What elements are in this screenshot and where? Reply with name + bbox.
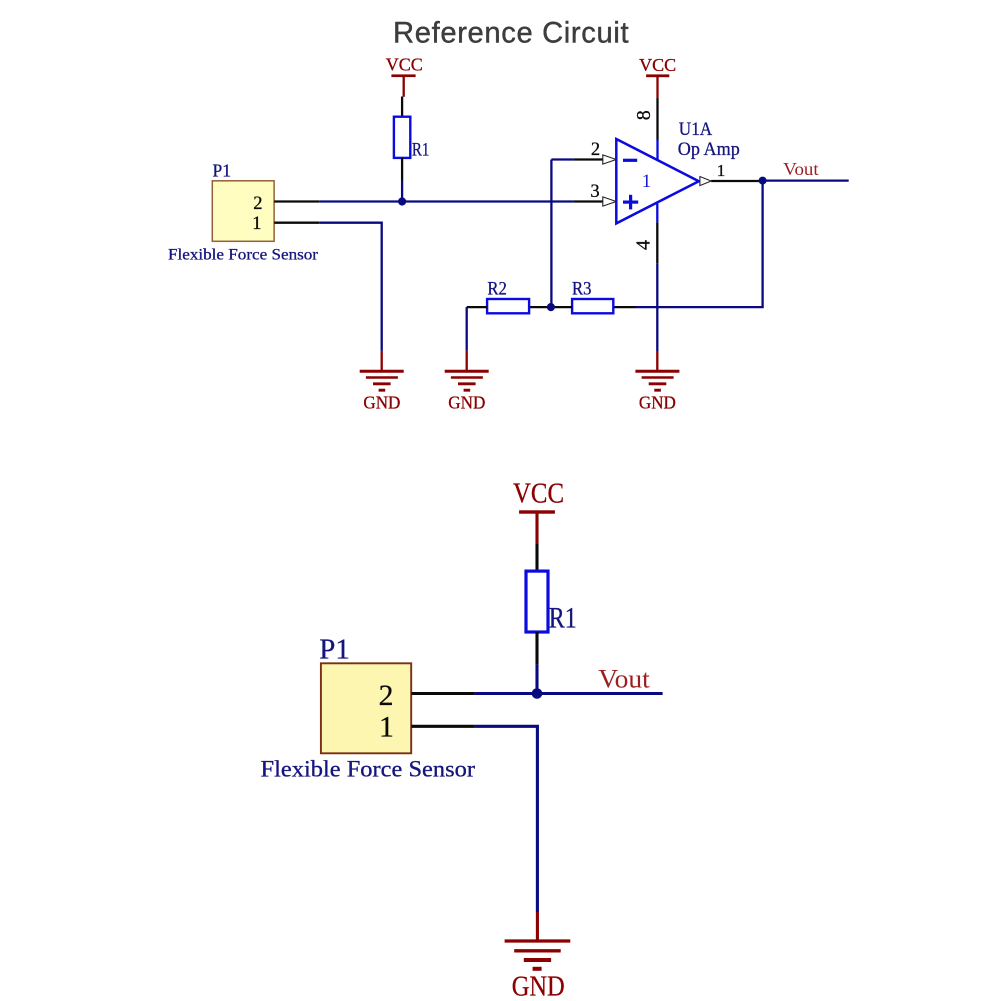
svg-text:Flexible Force Sensor: Flexible Force Sensor [168,246,319,263]
op-amp U1A [616,119,740,223]
resistor R1 [394,117,430,161]
wire (feedback from output) [636,181,763,308]
svg-text:GND: GND [448,392,485,412]
pin 1 stub (bottom) [411,725,474,728]
svg-text:1: 1 [717,161,726,180]
wire [551,158,573,160]
connector P1 [168,161,319,264]
svg-text:Vout: Vout [598,665,650,694]
resistor R1 (bottom) [526,571,577,634]
resistor R2 [467,278,529,313]
connector P1 (bottom) [261,634,476,782]
svg-text:8: 8 [633,110,655,120]
resistor R3 [529,278,636,313]
ground GND (op-amp) [635,351,679,412]
svg-text:1: 1 [379,712,394,744]
wire [319,223,381,351]
power VCC (R1 branch) [386,55,423,97]
pin 2 stub [274,200,319,202]
svg-text:VCC: VCC [513,479,564,510]
svg-text:VCC: VCC [639,55,676,75]
wire [763,179,849,181]
svg-text:P1: P1 [213,161,231,181]
pin 1 stub [274,222,319,224]
svg-text:R3: R3 [572,278,592,299]
wire [475,726,538,912]
svg-text:Reference Circuit: Reference Circuit [393,17,629,49]
svg-text:P1: P1 [319,634,350,665]
wire (feedback vertical) [550,160,552,308]
pin 3 of U1A [573,182,616,206]
svg-text:Vout: Vout [783,159,819,179]
power VCC (bottom circuit) [513,479,564,544]
power VCC (op-amp) [639,55,676,98]
pin 8 of U1A [633,97,658,160]
svg-text:3: 3 [590,182,599,202]
svg-text:U1A: U1A [679,119,713,140]
svg-text:2: 2 [379,680,394,712]
svg-text:VCC: VCC [386,55,423,75]
junction [398,197,406,205]
svg-text:GND: GND [639,392,676,412]
junction [547,303,555,311]
svg-text:R1: R1 [549,602,577,634]
wire net bus [319,200,573,202]
svg-text:R1: R1 [412,140,430,160]
wire [535,632,538,664]
wire [401,181,403,202]
ground GND (P1 pin1) [360,351,404,412]
svg-text:1: 1 [642,171,652,192]
wire [401,158,403,181]
wire net bus [475,692,663,695]
wire [656,264,658,351]
junction [532,688,543,699]
svg-text:R2: R2 [487,278,507,299]
ground GND (R2) [445,351,489,413]
pin 4 of U1A [633,204,658,264]
svg-text:Op Amp: Op Amp [678,139,740,160]
pin 2 of U1A [573,140,616,164]
wire [401,97,403,118]
wire [535,664,538,693]
svg-text:2: 2 [591,140,600,160]
svg-text:Flexible Force Sensor: Flexible Force Sensor [261,757,476,783]
svg-text:GND: GND [512,971,565,1001]
wire [466,307,468,351]
svg-text:4: 4 [633,240,655,250]
pin 1 of U1A (output) [700,161,761,186]
svg-text:1: 1 [252,214,261,234]
svg-text:2: 2 [253,194,262,214]
wire [535,543,538,571]
junction [759,177,767,185]
pin 2 stub (bottom) [411,692,474,695]
ground GND (bottom) [505,912,571,1001]
svg-text:GND: GND [363,392,400,412]
